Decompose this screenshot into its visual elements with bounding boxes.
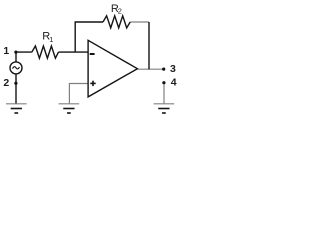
svg-text:1: 1 xyxy=(49,35,53,44)
svg-text:2: 2 xyxy=(118,7,122,16)
svg-text:2: 2 xyxy=(3,77,9,89)
svg-text:4: 4 xyxy=(171,77,177,89)
svg-text:1: 1 xyxy=(3,45,9,57)
svg-text:3: 3 xyxy=(170,63,176,75)
